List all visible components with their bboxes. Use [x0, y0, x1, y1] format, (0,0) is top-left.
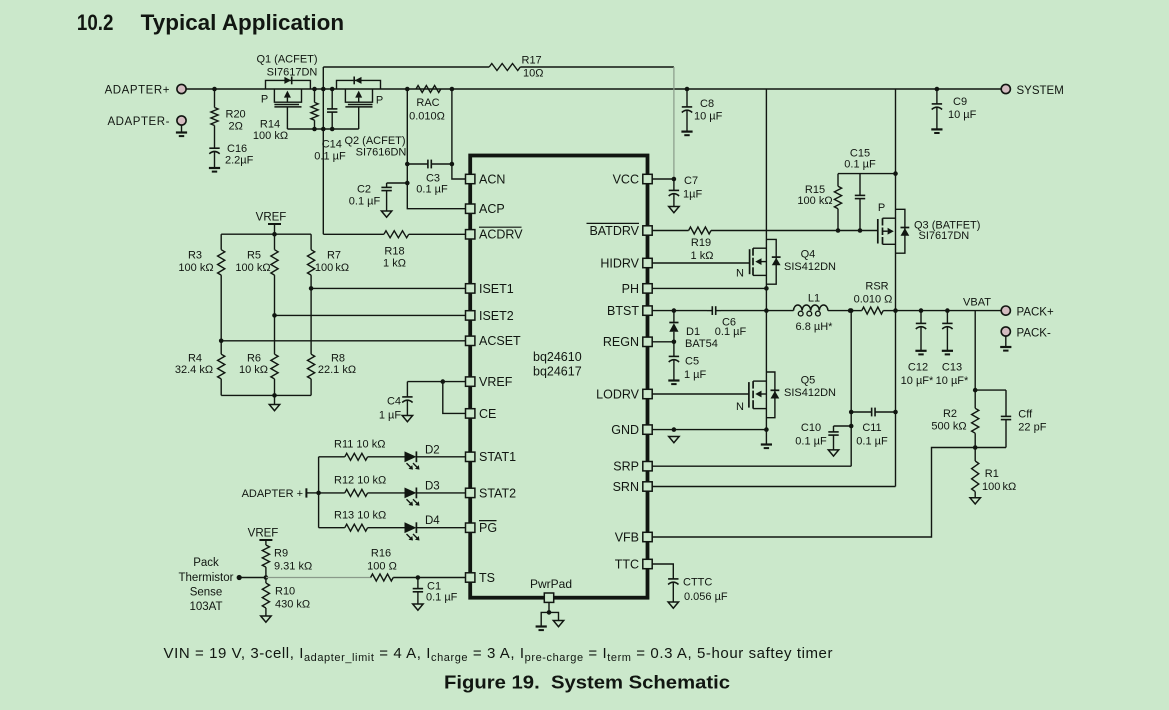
resistor R6	[239, 315, 278, 395]
svg-text:R17: R17	[522, 55, 542, 67]
svg-text:100 kΩ: 100 kΩ	[797, 195, 832, 207]
node R1 top	[973, 445, 978, 450]
svg-text:C14: C14	[322, 139, 342, 151]
svg-text:SIS412DN: SIS412DN	[784, 387, 836, 399]
resistor R12	[319, 475, 405, 497]
svg-text:PACK-: PACK-	[1017, 327, 1051, 339]
svg-text:1 kΩ: 1 kΩ	[383, 258, 406, 270]
svg-text:22 pF: 22 pF	[1018, 421, 1046, 433]
title heading 10.2 Typical Application	[77, 10, 344, 35]
svg-text:R1: R1	[985, 468, 999, 480]
svg-text:0.1 µF: 0.1 µF	[349, 195, 381, 207]
node ISET1 tap	[309, 286, 314, 291]
terminal ADAPTER+	[105, 84, 187, 96]
ground at C8	[681, 132, 692, 136]
pin TTC	[615, 557, 653, 571]
wire LED rail	[316, 457, 321, 528]
svg-text:STAT2: STAT2	[479, 486, 516, 500]
resistor RAC	[409, 86, 445, 123]
label Q2 P	[376, 94, 383, 106]
svg-text:P: P	[261, 94, 268, 106]
label Q1 P	[261, 94, 268, 106]
svg-text:GND: GND	[611, 423, 639, 437]
capacitor C4	[379, 382, 413, 422]
wire ACSET	[221, 340, 465, 342]
wire ACP riser	[407, 89, 465, 209]
wire LODRV	[652, 393, 749, 395]
resistor R3	[178, 234, 224, 341]
resistor R4	[175, 341, 225, 396]
ground at C1	[413, 604, 423, 610]
svg-text:D4: D4	[425, 515, 440, 527]
capacitor C3	[405, 160, 454, 196]
svg-text:PwrPad: PwrPad	[530, 577, 572, 591]
ground at PwrPad (earth)	[536, 612, 549, 630]
svg-text:R13 10 kΩ: R13 10 kΩ	[334, 509, 386, 521]
svg-text:D2: D2	[425, 444, 440, 456]
svg-text:Q4: Q4	[801, 248, 816, 260]
LED D2	[405, 444, 466, 469]
svg-text:10 kΩ: 10 kΩ	[239, 364, 268, 376]
svg-text:bq24610: bq24610	[533, 350, 582, 364]
ground at C16	[209, 168, 220, 172]
svg-text:ADAPTER+: ADAPTER+	[105, 85, 170, 97]
ground at ADAPTER-	[176, 125, 187, 136]
ground at PwrPad (signal)	[549, 612, 564, 626]
pin PwrPad	[530, 577, 572, 602]
svg-text:100 kΩ: 100 kΩ	[253, 130, 288, 142]
svg-text:0.010 Ω: 0.010 Ω	[854, 293, 893, 305]
power symbol VREF (divider)	[256, 212, 287, 235]
svg-text:VREF: VREF	[256, 212, 287, 224]
svg-text:C7: C7	[684, 175, 698, 187]
svg-text:ADAPTER-: ADAPTER-	[107, 116, 170, 128]
transistor Q2 (ACFET)	[337, 77, 381, 130]
LED D4	[405, 515, 466, 540]
wire GND	[652, 429, 766, 431]
svg-text:R6: R6	[247, 352, 261, 364]
label Q3	[914, 219, 980, 242]
svg-text:SRP: SRP	[613, 460, 639, 474]
pin STAT1	[466, 450, 517, 464]
resistor R2	[931, 390, 978, 447]
wire divider bottom rail	[221, 393, 311, 404]
svg-text:Pack: Pack	[193, 557, 219, 569]
capacitor C7	[669, 175, 703, 207]
svg-text:100 Ω: 100 Ω	[367, 561, 397, 573]
svg-text:C15: C15	[850, 147, 870, 159]
pin LODRV	[596, 387, 652, 401]
transistor Q4	[750, 89, 781, 311]
label Q1	[256, 53, 317, 78]
svg-text:R12 10 kΩ: R12 10 kΩ	[334, 475, 386, 487]
node C11 left	[849, 410, 854, 415]
svg-text:1 µF: 1 µF	[379, 409, 402, 421]
svg-text:R4: R4	[188, 352, 202, 364]
pin STAT2	[466, 486, 517, 500]
label R19	[691, 237, 714, 262]
transistor Q5	[749, 311, 779, 430]
svg-text:BAT54: BAT54	[685, 338, 718, 350]
svg-text:Q5: Q5	[801, 374, 816, 386]
svg-text:N: N	[736, 268, 744, 280]
svg-text:C13: C13	[942, 362, 962, 374]
IC U1 bq24610 body	[470, 156, 647, 598]
diode D1 BAT54	[669, 311, 718, 350]
capacitor C12	[901, 308, 934, 387]
svg-text:C2: C2	[357, 184, 371, 196]
svg-text:D3: D3	[425, 480, 440, 492]
svg-text:ACSET: ACSET	[479, 334, 521, 348]
node C10 tap	[849, 424, 854, 429]
wire ACDRV riser	[321, 67, 326, 234]
capacitor C5	[669, 342, 707, 381]
transistor Q1 (ACFET)	[266, 77, 311, 130]
wire SRP	[652, 308, 853, 466]
ground at C12	[915, 351, 926, 355]
svg-text:SI7617DN: SI7617DN	[267, 66, 318, 78]
wire CE tie	[443, 382, 466, 414]
svg-text:C12: C12	[908, 362, 928, 374]
svg-text:VCC: VCC	[613, 172, 639, 186]
resistor R5	[235, 234, 278, 315]
resistor R17	[323, 55, 674, 80]
capacitor C9	[932, 87, 977, 130]
node RAC right	[450, 87, 455, 92]
capacitor C15	[844, 147, 876, 230]
svg-text:C10: C10	[801, 422, 821, 434]
ground at C2	[381, 211, 391, 217]
label Q3 P	[878, 202, 885, 214]
svg-text:SI7617DN: SI7617DN	[919, 230, 970, 242]
inductor L1	[766, 292, 850, 333]
resistor R8	[308, 288, 357, 395]
svg-text:430 kΩ: 430 kΩ	[275, 599, 310, 611]
wire PH	[652, 286, 769, 291]
svg-text:2.2µF: 2.2µF	[225, 155, 254, 167]
label Q4	[784, 248, 836, 273]
resistor R20	[211, 89, 246, 133]
pin ACDRV	[466, 227, 524, 242]
resistor R7	[308, 234, 350, 288]
ground at C9	[931, 129, 942, 133]
node ISET2 tap	[272, 313, 277, 318]
svg-text:1 kΩ: 1 kΩ	[691, 250, 714, 262]
ground at R10	[261, 616, 271, 622]
wire VBAT rail	[896, 310, 1002, 312]
ground at C10	[828, 450, 838, 456]
resistor R14	[253, 87, 318, 142]
svg-text:STAT1: STAT1	[479, 450, 516, 464]
svg-text:SIS412DN: SIS412DN	[784, 261, 836, 273]
node C11 right	[893, 410, 898, 415]
label Pack Thermistor Sense	[179, 557, 234, 613]
capacitor C14	[314, 87, 346, 163]
pin ISET1	[466, 282, 514, 296]
svg-text:R2: R2	[943, 408, 957, 420]
svg-text:PACK+: PACK+	[1017, 306, 1054, 318]
svg-text:HIDRV: HIDRV	[600, 256, 639, 270]
svg-text:100 kΩ: 100 kΩ	[235, 262, 270, 274]
svg-text:TTC: TTC	[615, 557, 639, 571]
label VBAT	[963, 297, 991, 309]
svg-text:Figure 19. System Schematic: Figure 19. System Schematic	[444, 672, 730, 692]
resistor R15	[797, 174, 841, 231]
pin ACN	[466, 172, 506, 186]
svg-text:BTST: BTST	[607, 304, 639, 318]
resistor R16	[367, 548, 465, 582]
wire VBAT to divider	[974, 311, 976, 391]
pin ISET2	[466, 309, 514, 323]
terminal ADAPTER + (LED supply)	[242, 488, 319, 500]
node switch node	[764, 308, 769, 313]
capacitor C10	[795, 422, 851, 450]
capacitor C1	[413, 575, 458, 604]
capacitor C11	[851, 408, 895, 448]
svg-text:R16: R16	[371, 548, 391, 560]
svg-text:R10: R10	[275, 586, 295, 598]
terminal PACK+	[1001, 306, 1054, 318]
wire R17 to VCC (gray)	[673, 67, 675, 178]
svg-text:0.1 µF: 0.1 µF	[426, 592, 458, 604]
svg-text:RSR: RSR	[865, 280, 888, 292]
resistor R9	[262, 545, 312, 578]
pin PH	[622, 282, 653, 296]
svg-text:100 kΩ: 100 kΩ	[315, 262, 349, 274]
svg-text:LODRV: LODRV	[596, 387, 640, 401]
svg-text:1 µF: 1 µF	[684, 369, 707, 381]
svg-text:TS: TS	[479, 571, 495, 585]
svg-text:C9: C9	[953, 96, 967, 108]
svg-text:ADAPTER +: ADAPTER +	[242, 488, 303, 500]
svg-text:10 µF: 10 µF	[694, 111, 723, 123]
svg-text:PH: PH	[622, 282, 639, 296]
wire REGN	[652, 340, 676, 345]
svg-text:10 µF*: 10 µF*	[936, 375, 969, 387]
transistor Q3 (BATFET)	[878, 89, 910, 311]
svg-text:9.31 kΩ: 9.31 kΩ	[274, 561, 312, 573]
svg-text:2Ω: 2Ω	[229, 121, 243, 133]
svg-text:0.056 µF: 0.056 µF	[684, 591, 728, 603]
svg-text:Cff: Cff	[1018, 409, 1033, 421]
wire BATDRV	[652, 227, 878, 234]
svg-text:100 kΩ: 100 kΩ	[982, 481, 1016, 493]
svg-text:P: P	[376, 94, 383, 106]
svg-text:500 kΩ: 500 kΩ	[931, 421, 966, 433]
pin VFB	[615, 530, 653, 544]
svg-text:PG: PG	[479, 521, 497, 535]
node D1 top	[672, 308, 677, 313]
svg-text:C8: C8	[700, 98, 714, 110]
node ACSET tap	[219, 339, 224, 344]
svg-text:VIN = 19 V, 3-cell, Iadapter_l: VIN = 19 V, 3-cell, Iadapter_limit = 4 A…	[164, 645, 834, 664]
svg-text:R3: R3	[188, 250, 202, 262]
resistor R18	[323, 231, 465, 270]
svg-text:RAC: RAC	[416, 97, 439, 109]
wire VCC	[652, 177, 676, 182]
ground at CTTC	[668, 602, 678, 608]
svg-text:0.010Ω: 0.010Ω	[409, 110, 445, 122]
wire ISET2	[275, 314, 466, 316]
wire ISET1	[311, 287, 465, 289]
svg-text:P: P	[878, 202, 885, 214]
terminal PACK-	[1001, 327, 1051, 339]
svg-text:REGN: REGN	[603, 335, 639, 349]
svg-text:C4: C4	[387, 396, 401, 408]
svg-text:Sense: Sense	[190, 587, 223, 599]
svg-text:BATDRV: BATDRV	[589, 224, 639, 238]
resistor RSR	[850, 280, 895, 314]
svg-text:R20: R20	[226, 109, 246, 121]
svg-text:R5: R5	[247, 250, 261, 262]
ground at C4	[402, 416, 412, 422]
label Q4 N	[736, 268, 744, 280]
svg-text:L1: L1	[808, 292, 820, 304]
svg-text:SYSTEM: SYSTEM	[1017, 85, 1064, 97]
capacitor C13	[936, 308, 969, 387]
pin HIDRV	[600, 256, 652, 270]
svg-text:ACDRV: ACDRV	[479, 228, 523, 242]
svg-text:0.1 µF: 0.1 µF	[795, 436, 827, 448]
resistor R13	[319, 509, 405, 531]
svg-text:100 kΩ: 100 kΩ	[178, 262, 213, 274]
svg-text:1µF: 1µF	[683, 189, 702, 201]
svg-text:ACN: ACN	[479, 172, 505, 186]
ground at PACK-	[1000, 336, 1011, 351]
capacitor CTTC	[668, 576, 728, 604]
wire PwrPad ground stub	[547, 602, 552, 614]
terminal SYSTEM	[1001, 84, 1064, 96]
pin CE	[466, 407, 497, 421]
svg-text:C16: C16	[227, 143, 247, 155]
svg-text:CTTC: CTTC	[683, 577, 712, 589]
svg-text:32.4 kΩ: 32.4 kΩ	[175, 364, 213, 376]
svg-text:Q2 (ACFET): Q2 (ACFET)	[344, 135, 405, 147]
svg-text:22.1 kΩ: 22.1 kΩ	[318, 364, 356, 376]
svg-text:R11 10 kΩ: R11 10 kΩ	[334, 439, 385, 451]
wire HIDRV	[652, 262, 749, 264]
svg-text:0.1 µF: 0.1 µF	[715, 326, 747, 338]
svg-text:VBAT: VBAT	[963, 297, 991, 309]
node RAC left	[405, 87, 410, 92]
svg-text:N: N	[736, 401, 744, 413]
capacitor Cff	[975, 390, 1047, 447]
power symbol VREF (TS)	[248, 528, 279, 546]
svg-text:0.1 µF: 0.1 µF	[844, 159, 876, 171]
svg-text:0.1 µF: 0.1 µF	[416, 184, 448, 196]
label Q5 N	[736, 401, 744, 413]
pin TS	[466, 571, 495, 585]
resistor R11	[319, 439, 405, 461]
svg-text:VFB: VFB	[615, 530, 639, 544]
wire gate rail	[287, 128, 358, 130]
svg-text:R19: R19	[691, 237, 711, 249]
capacitor C2	[349, 181, 410, 211]
svg-text:CE: CE	[479, 407, 496, 421]
svg-text:SRN: SRN	[613, 480, 639, 494]
ground at Q5 (earth)	[761, 430, 772, 449]
ground at R1	[970, 498, 980, 504]
pin BATDRV	[587, 223, 653, 238]
label Q5	[784, 374, 836, 399]
svg-text:0.1 µF: 0.1 µF	[856, 436, 888, 448]
svg-text:VREF: VREF	[248, 528, 279, 540]
note operating conditions	[164, 645, 834, 664]
pin REGN	[603, 335, 652, 349]
node R2 top	[973, 388, 978, 393]
wire ACN riser	[452, 89, 466, 179]
pin PG	[466, 521, 498, 536]
svg-text:Thermistor: Thermistor	[179, 572, 234, 584]
svg-text:R14: R14	[260, 118, 280, 130]
label Q2	[344, 135, 406, 158]
svg-text:103AT: 103AT	[189, 601, 222, 613]
pin ACSET	[466, 334, 522, 348]
wire VREF pin	[407, 379, 465, 384]
pin GND	[611, 423, 652, 437]
svg-text:0.1 µF: 0.1 µF	[314, 150, 346, 162]
capacitor C8	[682, 87, 723, 132]
pin ACP	[466, 202, 505, 216]
svg-text:ISET1: ISET1	[479, 282, 514, 296]
pin SRP	[613, 460, 652, 474]
wire BTST	[652, 310, 707, 312]
svg-text:R18: R18	[384, 245, 404, 257]
svg-text:ISET2: ISET2	[479, 309, 514, 323]
pin BTST	[607, 304, 652, 318]
svg-text:10Ω: 10Ω	[523, 68, 543, 80]
LED D3	[405, 480, 466, 505]
wire VFB	[652, 448, 975, 538]
node TS junction	[264, 575, 269, 580]
svg-text:R9: R9	[274, 548, 288, 560]
ground at C5	[668, 381, 679, 385]
svg-text:VREF: VREF	[479, 375, 513, 389]
pin VREF	[466, 375, 513, 389]
svg-text:bq24617: bq24617	[533, 365, 582, 379]
svg-text:10 µF*: 10 µF*	[901, 375, 934, 387]
svg-text:10 µF: 10 µF	[948, 109, 977, 121]
svg-text:ACP: ACP	[479, 202, 505, 216]
node RSR right	[893, 308, 898, 313]
svg-text:Q1 (ACFET): Q1 (ACFET)	[256, 53, 317, 65]
wire SRN	[652, 311, 895, 487]
node R20 tap	[212, 87, 217, 92]
capacitor C6	[707, 306, 766, 338]
svg-text:C5: C5	[685, 356, 699, 368]
caption Figure 19	[444, 672, 730, 692]
terminal ADAPTER-	[107, 116, 186, 128]
ground at C13	[942, 351, 953, 355]
capacitor C16	[209, 126, 253, 169]
wire TS (gray)	[266, 577, 371, 579]
terminal pack thermistor	[237, 575, 266, 580]
svg-text:D1: D1	[686, 326, 700, 338]
pin SRN	[613, 480, 653, 494]
resistor R10	[262, 578, 310, 617]
svg-text:R7: R7	[327, 250, 341, 262]
node L1-RSR junction	[848, 308, 853, 313]
ground at C7	[669, 207, 679, 213]
svg-text:SI7616DN: SI7616DN	[356, 146, 407, 158]
node GND arrow tap	[672, 427, 677, 432]
wire main adapter rail	[186, 88, 1001, 90]
resistor R1	[972, 448, 1017, 498]
wire divider top rail	[221, 232, 311, 237]
ground at divider	[269, 405, 279, 411]
node Q5 source	[764, 427, 769, 432]
svg-text:6.8 µH*: 6.8 µH*	[796, 321, 834, 333]
